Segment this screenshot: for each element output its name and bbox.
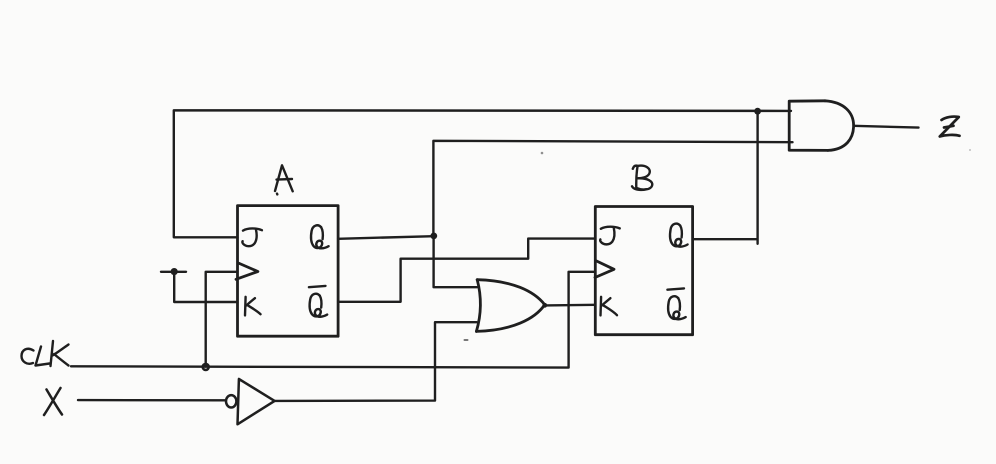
wire CLK rail to clock of B — [71, 272, 595, 368]
JK flip-flop B — [595, 207, 693, 335]
wire top feedback (B.Q to J of A and AND input) — [174, 110, 791, 237]
node OR output tip — [542, 303, 547, 308]
pin label K (A) — [245, 297, 261, 316]
speckle artifacts — [464, 149, 972, 341]
pin label Q (A) — [311, 225, 329, 248]
OR gate — [476, 280, 544, 332]
wire clock of A to CLK rail — [206, 272, 238, 367]
wire inverter output to OR gate bottom input — [275, 322, 477, 401]
node CLK junction — [203, 364, 209, 370]
pin label J (B) — [600, 227, 620, 245]
pin label Qbar (B) — [667, 288, 685, 319]
JK flip-flop A — [236, 206, 338, 337]
wire OR output to K of B — [545, 304, 595, 307]
node junction on top wire — [754, 108, 761, 115]
wire B.Q up to AND gate top input — [693, 111, 758, 244]
pin label Q (B) — [670, 224, 688, 247]
label Z — [940, 117, 960, 137]
pin label K (B) — [601, 297, 618, 316]
AND gate — [789, 101, 853, 151]
node tie dot — [171, 268, 178, 275]
wire A.Q to junction — [338, 236, 434, 239]
wire X input — [78, 399, 225, 402]
pin label J (A) — [242, 228, 262, 246]
label X — [44, 388, 62, 415]
label CLK — [22, 341, 69, 366]
label B — [632, 166, 652, 190]
pin label Qbar (A) — [309, 286, 327, 317]
wire junction up to AND gate lower input — [433, 141, 792, 236]
wire junction down to OR gate top input — [434, 236, 477, 287]
wire A.Qbar to J of B — [338, 239, 595, 302]
node junction on A.Q — [430, 233, 437, 240]
inverter on X — [226, 379, 275, 424]
tie stub with node (J/K tie of A) — [161, 272, 238, 302]
wire AND output to Z — [854, 126, 919, 128]
label A — [275, 165, 293, 194]
